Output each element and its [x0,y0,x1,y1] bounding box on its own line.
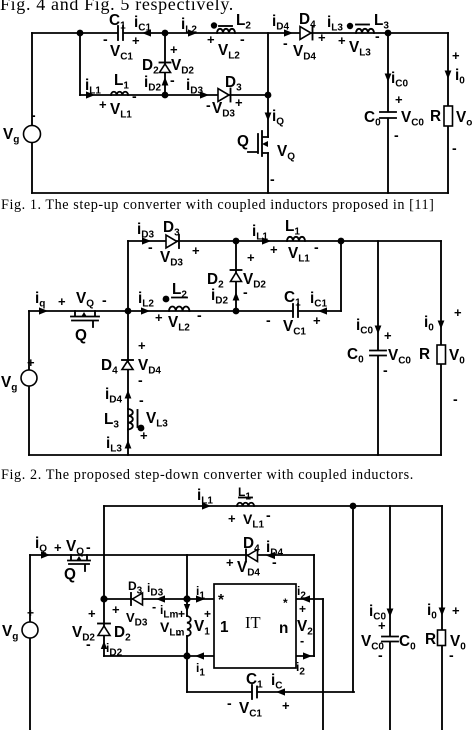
svg-text:+: + [395,92,403,107]
wire: left drop x=104 (top rail to D2 branch) [103,506,105,656]
label iL1 with right arrow [252,223,271,245]
svg-text:-: - [227,695,232,711]
svg-text:+: + [192,243,200,258]
wire: left drop from top rail to switch rail [127,241,129,311]
wire: D2 branch vertical [235,241,237,311]
voltage source Vg [1,355,37,394]
svg-text:+: + [452,48,460,63]
svg-text:-: - [31,107,36,123]
svg-text:-: - [453,391,458,407]
label i1 bottom with left arrow [195,652,205,678]
svg-text:-: - [243,284,248,300]
label iD3 with right arrow [137,221,154,245]
svg-text:-: - [206,97,211,113]
label iD4 with right arrow [272,13,293,37]
left arrow on primary top rail [156,595,165,602]
label +VL1- [270,239,319,265]
svg-text:-: - [148,239,153,255]
label +VL2- [207,31,245,62]
svg-text:-: - [283,35,288,51]
svg-text:-: - [266,312,271,328]
diode D2 [142,42,194,88]
wire: switch branch vertical [267,33,269,193]
wire: secondary top lead y=599 [296,598,323,600]
svg-text:+: + [112,602,120,617]
svg-text:-: - [132,88,137,104]
svg-text:Q: Q [237,133,249,150]
svg-text:+: + [207,32,215,47]
svg-text:-: - [452,140,457,156]
capacitor C1 [246,671,263,699]
label VLm [160,619,184,641]
svg-text:+: + [138,338,146,353]
inductor L1 (core bar + coil) [237,485,254,506]
svg-text:n: n [279,620,288,637]
svg-text:R: R [430,108,441,125]
node L (D2 top) [100,595,107,602]
svg-text:-: - [152,600,156,614]
resistor R [430,106,472,156]
wire: top rail y=241 [128,240,441,242]
node I (D2 bottom) [233,308,240,315]
label i1 top with right arrow [196,584,205,603]
wire: primary bottom rail y=656 [104,655,214,657]
svg-text:-: - [266,507,271,523]
svg-text:-: - [314,239,319,255]
wire: bottom rail [29,454,441,456]
svg-text:-: - [102,292,107,308]
node M (primary bottom) [183,652,190,659]
resistor R [425,630,466,663]
svg-text:+: + [338,33,346,48]
svg-text:Fig. 1. The step-up converter: Fig. 1. The step-up converter with coupl… [1,197,434,213]
diode D4 [226,535,277,579]
wire: D4/L3 branch vertical [127,311,129,455]
label iQ with right arrow [35,535,50,559]
label iQ with down arrow [265,108,285,128]
svg-text:+: + [299,602,306,616]
svg-text:+: + [27,606,34,620]
transistor Q (NMOS) [237,131,295,187]
svg-text:+: + [178,607,185,621]
svg-text:+: + [247,250,255,265]
svg-text:R: R [419,346,430,363]
wire: bottom rail [32,192,448,194]
svg-text:+: + [170,42,178,57]
label iq with right arrow [35,290,48,315]
node J (output riser top) [350,503,357,510]
svg-text:R: R [425,631,436,648]
wire: D4 return drop x=314 [313,555,315,656]
svg-text:-: - [170,72,175,88]
wire: magnetizing branch x=187 [186,599,188,692]
svg-text:-: - [270,171,275,187]
wire: middle rail y=95 (L1 / D3) [80,94,268,96]
svg-text:1: 1 [220,619,229,636]
svg-text:+: + [140,428,148,443]
transistor Q (NMOS, horizontal) [71,311,99,344]
svg-text:+: + [226,555,234,570]
svg-text:+: + [99,97,107,112]
diode D3 [112,579,156,629]
voltage source Vg [3,107,41,146]
label i0 with down arrow and + [427,602,460,622]
wire: top rail y=33 [32,32,448,34]
svg-text:-: - [449,647,454,663]
wire: left rail with source [29,555,31,730]
diode D4 [283,11,326,63]
label iC0 with down arrow [369,603,393,633]
svg-text:*: * [283,596,288,610]
label i2 top with left arrow [297,584,310,603]
wire: C0 branch vertical [389,506,391,730]
inductor L1 [285,218,305,241]
svg-text:Q: Q [75,327,87,344]
wire: output riser x=353 [352,506,354,692]
wire: C1 riser [340,241,342,311]
wire: C1 rail y=692 [187,691,354,693]
label +VL3- [338,28,380,59]
coupled inductor L3 (coil + core bar + dot) [104,392,168,443]
label + i0 with down arrow [445,48,466,87]
svg-text:+: + [54,540,62,555]
coupled inductor L3 (dot + core bar + coil) [347,12,390,33]
svg-text:-: - [300,634,304,648]
svg-text:+: + [88,606,96,621]
label iD2 with up arrow [211,284,248,307]
capacitor C0 [361,633,416,663]
label +VQ- [54,538,91,558]
coupled inductor L2 (dot + core bar + coil) [163,281,190,311]
node G (C1 top) [338,238,345,245]
svg-text:+: + [270,242,278,257]
svg-text:-: - [138,372,143,388]
label i0 with down arrow and + [424,305,462,334]
coupled inductor L2 (dot + core bar + coil) [211,12,252,33]
capacitor C1 [284,289,301,317]
wire: drop from node A to L1 branch [79,33,81,95]
svg-text:*: * [218,592,224,609]
wire: left rail with source [28,311,30,455]
svg-text:+: + [282,698,290,713]
wire: secondary bottom lead y=656 [296,655,314,657]
svg-text:IT: IT [245,613,261,632]
label V1 [194,607,211,638]
capacitor C1 [109,12,126,40]
label +VL2- [155,307,202,334]
svg-text:+: + [384,328,392,343]
diode D2 [207,250,266,291]
wire: load branch vertical [440,241,442,455]
wire: C0 branch vertical [387,33,389,193]
node F (D2 top) [233,238,240,245]
svg-text:-: - [375,28,380,44]
label iL1 with right arrow [85,77,101,99]
label iL3 with up arrow [106,435,131,455]
label iD4 with up arrow [105,386,131,406]
node C (C0 top) [385,30,392,37]
diode D3 [148,219,200,269]
label -VC1+ [266,312,321,338]
svg-text:+: + [454,305,462,320]
label +VQ- [58,290,107,310]
node H (D4 top) [125,308,132,315]
node B (D2 top) [162,30,169,37]
svg-text:-: - [197,307,202,323]
wire: switch/D4 rail y=555 [30,554,314,556]
svg-text:-: - [86,636,91,652]
label iC1 with left arrow [310,290,327,315]
svg-text:+: + [452,603,460,618]
svg-text:+: + [27,355,35,370]
diode D2 [72,606,131,652]
label iD4 with left arrow [266,539,283,559]
svg-text:-: - [177,627,181,641]
label i2 bottom with right arrow [296,652,312,677]
ideal transformer IT box [214,584,296,668]
resistor R [419,345,465,407]
svg-text:-: - [394,127,399,143]
wire: C0 branch vertical [377,241,379,455]
svg-text:-: - [378,647,383,663]
voltage source Vg [2,606,38,643]
label iC1 with left arrow [134,14,151,37]
label -VC1+ [103,31,140,63]
svg-text:+: + [318,30,326,45]
label iD3 with right arrow [186,77,209,99]
label iD2 with up arrow [101,641,123,659]
label iD2 with up arrow [144,74,168,94]
node D (D3 cathode junction) [265,92,272,99]
node E (D2 bottom) [162,92,169,99]
label iC0 with down arrow [385,70,409,90]
label +VL1- [99,88,137,121]
label V2 [297,602,313,648]
svg-text:+: + [155,310,163,325]
wire: drop from switch rail to primary top node [186,555,188,599]
diode D3 [206,74,243,120]
svg-text:+: + [58,294,66,309]
wire: left rail with source branch [31,33,33,193]
wire: load branch vertical [441,506,443,730]
wire: D2 branch vertical [164,33,166,95]
node A [77,30,84,37]
svg-text:-: - [86,539,91,555]
inductor Lm coil [187,616,191,636]
wire: right rail (load branch) [447,33,449,193]
wire: switch rail y=311 [29,310,341,312]
diode D4 [101,338,161,388]
svg-text:Q: Q [64,566,76,583]
label iC0 with down arrow [356,317,392,343]
label iL1 with right arrow [197,487,213,510]
svg-text:Fig. 2. The proposed step-down: Fig. 2. The proposed step-down converter… [1,467,414,483]
svg-text:-: - [383,362,388,378]
svg-text:-: - [240,31,245,47]
inductor L1 [111,72,129,95]
wire: secondary drop x=323 to bottom edge [322,599,324,730]
label iLm with down arrow [160,603,190,621]
svg-text:-: - [103,31,108,47]
label iC with left arrow [271,672,285,696]
wire: primary top rail y=599 [104,598,214,600]
label +VL1- [228,507,271,531]
label iL2 with right arrow [181,16,197,37]
capacitor C0 [364,92,424,143]
svg-text:+: + [313,313,321,328]
label -VC1+ [227,695,290,720]
capacitor C0 [347,346,411,378]
svg-text:+: + [204,607,211,621]
svg-text:+: + [228,511,236,526]
wire: top rail y=506 [104,505,442,507]
node K (primary top) [183,595,190,602]
label iL2 with right arrow [138,290,154,315]
svg-text:-: - [139,392,144,408]
svg-text:+: + [378,618,386,633]
transistor Q (NMOS, horizontal) [64,555,90,583]
svg-text:+: + [235,95,243,110]
svg-text:+: + [132,33,140,48]
